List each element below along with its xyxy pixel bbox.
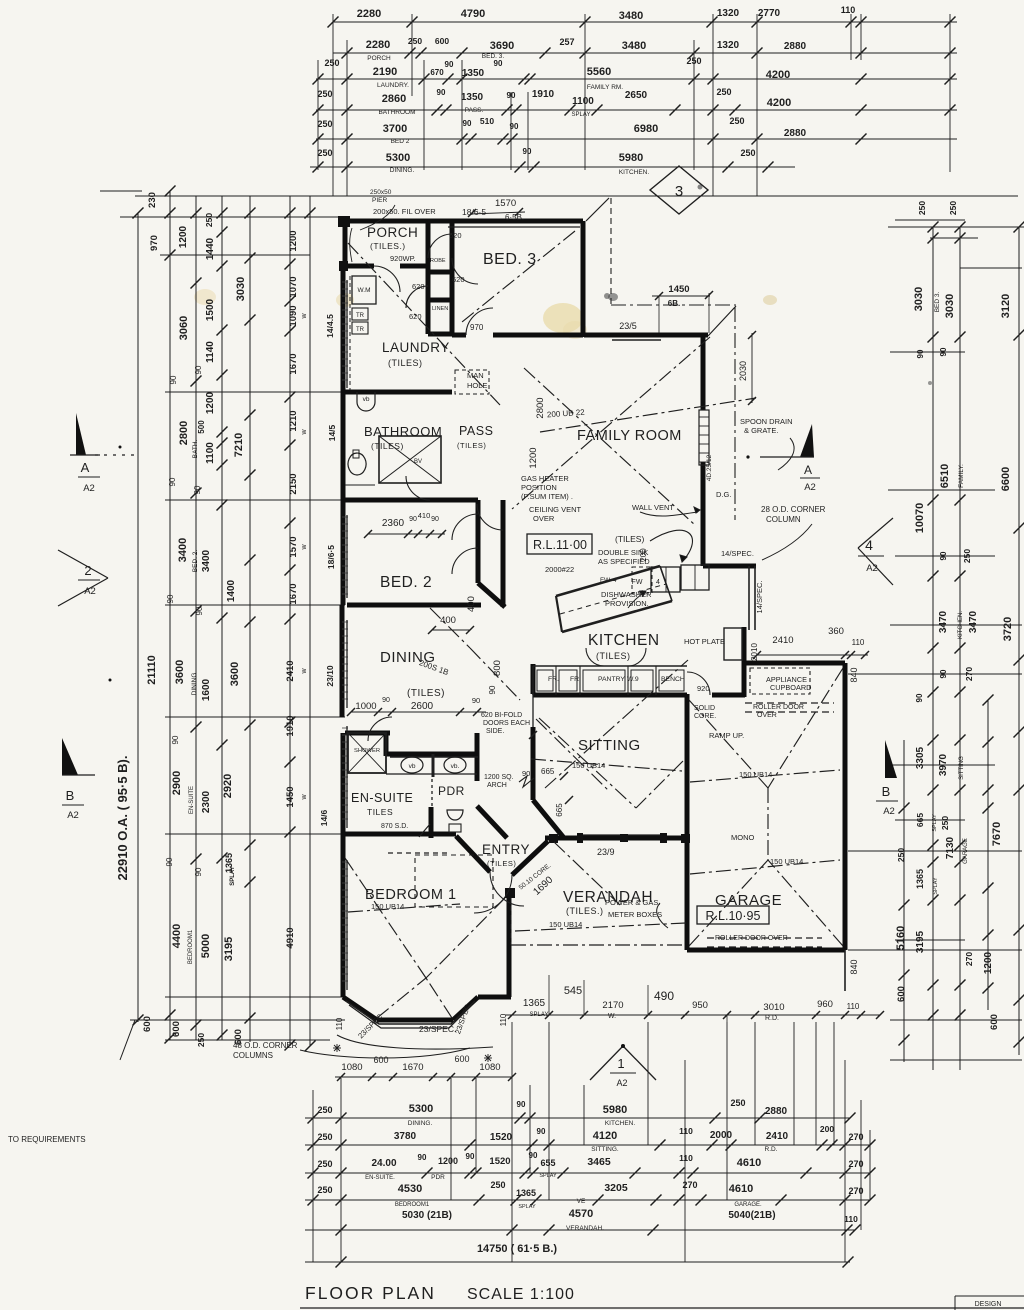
svg-text:250: 250 <box>408 36 422 46</box>
svg-text:6B.: 6B. <box>668 299 680 308</box>
svg-text:& GRATE.: & GRATE. <box>744 426 778 435</box>
svg-text:4120: 4120 <box>593 1130 617 1142</box>
svg-text:600: 600 <box>171 1021 182 1037</box>
svg-text:D.G.: D.G. <box>716 490 731 499</box>
svg-text:2300: 2300 <box>201 790 212 813</box>
svg-text:1670: 1670 <box>288 353 299 374</box>
svg-text:1200 SQ.: 1200 SQ. <box>484 774 514 781</box>
svg-text:PORCH: PORCH <box>367 225 418 240</box>
svg-text:2360: 2360 <box>382 518 405 529</box>
svg-text:R.D.: R.D. <box>765 1146 778 1153</box>
svg-text:1200: 1200 <box>178 225 189 248</box>
svg-text:4910: 4910 <box>285 927 296 948</box>
svg-text:600: 600 <box>373 1055 388 1065</box>
svg-text:90: 90 <box>195 606 204 615</box>
svg-text:410: 410 <box>418 511 431 520</box>
svg-text:SITTING: SITTING <box>959 756 965 780</box>
svg-text:VERANDAH.: VERANDAH. <box>566 1225 604 1232</box>
svg-text:1520: 1520 <box>489 1156 510 1167</box>
svg-text:4: 4 <box>865 537 873 553</box>
svg-text:110: 110 <box>679 1126 693 1136</box>
svg-text:KITCHEN.: KITCHEN. <box>605 1120 636 1127</box>
svg-text:SPLAY: SPLAY <box>572 112 591 118</box>
svg-text:LAUNDRY.: LAUNDRY. <box>377 82 409 89</box>
svg-text:A2: A2 <box>83 483 95 494</box>
svg-text:SITTING: SITTING <box>578 737 641 754</box>
svg-text:1200: 1200 <box>288 230 299 251</box>
svg-text:BEDROOM1: BEDROOM1 <box>395 1202 430 1208</box>
svg-text:2000: 2000 <box>710 1130 733 1141</box>
svg-text:SIDE.: SIDE. <box>486 728 504 735</box>
svg-text:vb: vb <box>409 763 416 770</box>
svg-text:2920: 2920 <box>222 774 234 798</box>
svg-text:2: 2 <box>84 563 91 578</box>
svg-text:90: 90 <box>437 88 446 97</box>
svg-text:1350: 1350 <box>462 68 485 79</box>
svg-text:TR: TR <box>356 313 365 319</box>
svg-text:4200: 4200 <box>767 97 791 109</box>
svg-text:(TILES): (TILES) <box>596 651 631 661</box>
svg-text:1200: 1200 <box>438 1156 458 1166</box>
svg-text:250: 250 <box>729 116 744 126</box>
svg-text:2280: 2280 <box>357 8 381 20</box>
svg-text:90: 90 <box>507 91 516 100</box>
svg-text:HOT PLATE: HOT PLATE <box>684 637 725 646</box>
svg-text:2030: 2030 <box>738 361 748 381</box>
svg-text:14/5: 14/5 <box>327 424 337 441</box>
svg-text:90: 90 <box>171 735 180 744</box>
svg-text:1070: 1070 <box>288 276 299 297</box>
svg-text:840: 840 <box>849 959 859 974</box>
svg-text:400: 400 <box>440 615 456 626</box>
svg-text:90: 90 <box>488 685 497 694</box>
svg-text:RAMP UP.: RAMP UP. <box>709 731 744 740</box>
svg-text:1350: 1350 <box>461 92 484 103</box>
svg-text:6·5B.: 6·5B. <box>505 213 524 222</box>
svg-text:1320: 1320 <box>717 8 740 19</box>
svg-text:1570: 1570 <box>495 198 516 209</box>
svg-text:250: 250 <box>730 1098 745 1108</box>
svg-text:A2: A2 <box>67 810 79 821</box>
svg-text:CUPBOARD: CUPBOARD <box>770 683 811 692</box>
svg-text:600: 600 <box>435 36 449 46</box>
svg-text:5980: 5980 <box>619 152 643 164</box>
svg-text:BED 3.: BED 3. <box>934 292 941 313</box>
svg-text:21110: 21110 <box>146 655 158 684</box>
svg-text:2600: 2600 <box>411 701 434 712</box>
svg-text:3465: 3465 <box>587 1156 611 1168</box>
svg-text:2900: 2900 <box>171 771 183 795</box>
svg-text:110: 110 <box>844 1214 858 1224</box>
svg-text:1670: 1670 <box>402 1062 423 1073</box>
svg-text:5300: 5300 <box>409 1103 433 1115</box>
svg-text:A2: A2 <box>616 1078 627 1088</box>
svg-text:BATHROOM: BATHROOM <box>378 109 415 116</box>
svg-text:28 O.D. CORNER: 28 O.D. CORNER <box>761 505 826 514</box>
svg-text:5560: 5560 <box>587 66 611 78</box>
svg-text:FAMILY.: FAMILY. <box>958 464 965 488</box>
svg-text:2000#22: 2000#22 <box>545 565 574 574</box>
svg-text:90: 90 <box>168 477 177 486</box>
svg-text:KITCHEN: KITCHEN <box>588 632 660 649</box>
svg-text:2800: 2800 <box>178 421 190 445</box>
svg-text:3600: 3600 <box>174 660 186 684</box>
svg-text:23/10: 23/10 <box>325 665 335 687</box>
svg-text:620: 620 <box>449 231 462 240</box>
svg-text:3470: 3470 <box>938 610 949 633</box>
svg-text:3400: 3400 <box>177 538 189 562</box>
svg-text:(TILES.): (TILES.) <box>566 906 604 916</box>
svg-text:EN-SUITE: EN-SUITE <box>189 786 195 814</box>
svg-text:5030 (21B): 5030 (21B) <box>402 1210 452 1221</box>
svg-text:FLOOR PLAN: FLOOR PLAN <box>305 1283 436 1303</box>
svg-text:A: A <box>81 460 90 475</box>
svg-text:600: 600 <box>896 986 907 1002</box>
svg-text:A: A <box>804 463 812 477</box>
svg-text:5980: 5980 <box>603 1104 627 1116</box>
svg-text:GAS HEATER: GAS HEATER <box>521 474 569 483</box>
svg-text:A2: A2 <box>866 563 878 574</box>
svg-text:5040(21B): 5040(21B) <box>728 1210 775 1221</box>
svg-text:1365: 1365 <box>915 869 925 889</box>
svg-text:1570: 1570 <box>288 536 299 557</box>
svg-text:ROBE: ROBE <box>430 258 446 264</box>
svg-text:MAN: MAN <box>467 371 484 380</box>
svg-text:FR.: FR. <box>548 676 559 683</box>
svg-text:90: 90 <box>916 349 925 358</box>
svg-text:250: 250 <box>324 58 339 68</box>
svg-text:2150: 2150 <box>288 473 299 494</box>
svg-text:CEILING VENT: CEILING VENT <box>529 505 582 514</box>
svg-text:1910: 1910 <box>532 89 555 100</box>
svg-text:2190: 2190 <box>373 66 397 78</box>
svg-text:PDR: PDR <box>431 1174 445 1181</box>
svg-text:TILES: TILES <box>367 807 393 817</box>
svg-text:B: B <box>66 788 75 803</box>
svg-text:vb.: vb. <box>451 763 460 770</box>
svg-text:EN-SUITE.: EN-SUITE. <box>365 1175 395 1181</box>
svg-text:90: 90 <box>537 1127 546 1136</box>
svg-text:6600: 6600 <box>1000 467 1012 491</box>
svg-text:DINING: DINING <box>191 673 198 696</box>
svg-text:EN-SUITE: EN-SUITE <box>351 791 413 805</box>
svg-text:23/5: 23/5 <box>619 321 637 331</box>
svg-text:3010: 3010 <box>763 1002 784 1013</box>
svg-text:90: 90 <box>194 365 203 374</box>
svg-text:FR.: FR. <box>570 676 581 683</box>
svg-text:1450: 1450 <box>668 284 689 295</box>
svg-text:90: 90 <box>193 485 202 494</box>
svg-text:w: w <box>301 668 308 675</box>
svg-text:1500: 1500 <box>205 298 216 321</box>
svg-text:R.D.: R.D. <box>765 1015 779 1022</box>
svg-text:SPLAY: SPLAY <box>518 1204 536 1210</box>
svg-text:BED. 3.: BED. 3. <box>482 53 505 60</box>
svg-text:PANTRY: PANTRY <box>598 676 625 683</box>
svg-text:970: 970 <box>149 235 160 251</box>
svg-text:W.M: W.M <box>358 287 371 294</box>
svg-text:90: 90 <box>463 119 472 128</box>
svg-text:SPLAY: SPLAY <box>932 814 938 832</box>
svg-text:1200: 1200 <box>528 447 539 468</box>
svg-text:BEDROOM 1: BEDROOM 1 <box>365 887 457 903</box>
svg-text:POWER & GAS.: POWER & GAS. <box>605 898 660 907</box>
svg-text:1600: 1600 <box>201 678 212 701</box>
svg-text:150 UB14: 150 UB14 <box>371 902 404 911</box>
svg-text:FW: FW <box>600 577 611 584</box>
svg-text:WALL VENT: WALL VENT <box>632 503 674 512</box>
svg-text:CORE.: CORE. <box>694 713 716 720</box>
svg-text:4200: 4200 <box>766 69 790 81</box>
svg-text:250: 250 <box>940 816 950 830</box>
svg-text:1320: 1320 <box>717 40 740 51</box>
svg-text:FAMILY RM.: FAMILY RM. <box>587 84 623 91</box>
svg-text:W.9: W.9 <box>627 676 639 683</box>
svg-text:18/6·5: 18/6·5 <box>462 207 486 217</box>
svg-text:400: 400 <box>466 596 477 612</box>
svg-text:620: 620 <box>409 312 422 321</box>
svg-text:3030: 3030 <box>944 294 956 318</box>
svg-text:2170: 2170 <box>602 1000 623 1011</box>
svg-text:A2: A2 <box>883 806 895 817</box>
svg-text:4790: 4790 <box>461 8 485 20</box>
svg-text:950: 950 <box>692 1000 708 1011</box>
svg-text:4570: 4570 <box>569 1208 593 1220</box>
svg-text:SPOON DRAIN: SPOON DRAIN <box>740 417 793 426</box>
svg-text:1440: 1440 <box>205 237 216 260</box>
svg-text:PDR: PDR <box>438 784 465 798</box>
svg-text:BED 2: BED 2 <box>391 138 410 145</box>
svg-text:COLUMNS: COLUMNS <box>233 1051 273 1060</box>
svg-text:90: 90 <box>915 693 924 702</box>
svg-text:1365: 1365 <box>523 998 546 1009</box>
svg-text:2800: 2800 <box>535 397 546 418</box>
svg-text:2770: 2770 <box>758 8 781 19</box>
svg-text:110: 110 <box>852 638 865 647</box>
svg-text:2650: 2650 <box>625 90 648 101</box>
svg-text:665: 665 <box>541 767 555 776</box>
svg-text:(TILES.): (TILES.) <box>370 241 406 251</box>
svg-text:250: 250 <box>896 848 906 862</box>
svg-text:90: 90 <box>510 122 519 131</box>
svg-text:90: 90 <box>194 867 203 876</box>
svg-text:10070: 10070 <box>914 503 926 534</box>
svg-text:2280: 2280 <box>366 39 390 51</box>
svg-text:270: 270 <box>964 952 974 966</box>
svg-text:14/4.5: 14/4.5 <box>325 314 335 338</box>
svg-text:3480: 3480 <box>622 40 646 52</box>
svg-text:B: B <box>882 784 891 799</box>
svg-text:ENTRY: ENTRY <box>482 842 530 857</box>
svg-text:METER BOXES: METER BOXES <box>608 910 662 919</box>
svg-text:3780: 3780 <box>394 1131 417 1142</box>
svg-text:1520: 1520 <box>490 1132 513 1143</box>
svg-text:90: 90 <box>418 1153 427 1162</box>
svg-text:500: 500 <box>197 420 206 434</box>
svg-text:90: 90 <box>431 516 439 523</box>
svg-text:3030: 3030 <box>235 277 247 301</box>
svg-text:620: 620 <box>412 282 425 291</box>
svg-text:1080: 1080 <box>479 1062 500 1073</box>
svg-text:14/6: 14/6 <box>319 809 329 826</box>
svg-text:5160: 5160 <box>895 926 907 950</box>
svg-text:48 O.D. CORNER: 48 O.D. CORNER <box>233 1041 298 1050</box>
svg-text:POSITION: POSITION <box>521 483 557 492</box>
svg-text:2880: 2880 <box>784 41 807 52</box>
svg-text:KITCHEN.: KITCHEN. <box>619 169 650 176</box>
svg-text:1090: 1090 <box>288 305 299 326</box>
svg-text:4610: 4610 <box>729 1183 753 1195</box>
svg-text:150 UB14: 150 UB14 <box>739 770 772 779</box>
svg-text:DINING.: DINING. <box>408 1120 433 1127</box>
svg-text:250: 250 <box>317 1132 332 1142</box>
svg-text:3120: 3120 <box>1000 294 1012 318</box>
svg-text:250: 250 <box>317 148 332 158</box>
svg-text:LINEN: LINEN <box>432 306 448 312</box>
svg-text:250: 250 <box>317 119 332 129</box>
svg-text:250: 250 <box>317 1105 332 1115</box>
svg-text:LAUNDRY: LAUNDRY <box>382 340 450 355</box>
svg-text:BED. 2: BED. 2 <box>380 574 432 591</box>
svg-text:4530: 4530 <box>398 1183 422 1195</box>
svg-text:SPLAY: SPLAY <box>933 877 939 895</box>
svg-text:(TILES): (TILES) <box>388 358 423 368</box>
svg-text:840: 840 <box>849 667 859 682</box>
svg-text:90: 90 <box>523 147 532 156</box>
svg-text:250: 250 <box>948 201 958 215</box>
svg-text:w: w <box>301 429 308 436</box>
svg-text:7670: 7670 <box>991 822 1003 846</box>
svg-text:BATHROOM: BATHROOM <box>364 424 442 439</box>
svg-text:90: 90 <box>165 857 174 866</box>
svg-text:7130: 7130 <box>945 836 956 859</box>
svg-text:BEDROOM1: BEDROOM1 <box>188 929 194 964</box>
svg-text:14/SPEC.: 14/SPEC. <box>721 549 754 558</box>
svg-text:18/6·5: 18/6·5 <box>326 545 336 569</box>
svg-text:90: 90 <box>169 375 178 384</box>
svg-text:90: 90 <box>472 696 480 705</box>
svg-text:1080: 1080 <box>341 1062 362 1073</box>
svg-text:BED. 3: BED. 3 <box>483 251 537 268</box>
svg-text:110: 110 <box>335 1017 344 1030</box>
svg-text:150 UB14: 150 UB14 <box>549 920 582 929</box>
svg-text:150 UB14: 150 UB14 <box>770 857 803 866</box>
svg-text:(TILES): (TILES) <box>371 441 404 451</box>
svg-text:90: 90 <box>494 59 503 68</box>
svg-text:A2: A2 <box>84 586 96 597</box>
svg-text:TR: TR <box>356 327 365 333</box>
svg-text:w: w <box>301 544 308 551</box>
svg-text:1: 1 <box>617 1056 624 1071</box>
svg-text:R.L.10·95: R.L.10·95 <box>706 909 761 923</box>
svg-text:250: 250 <box>490 1180 505 1190</box>
svg-text:4D.25/12: 4D.25/12 <box>706 454 713 481</box>
svg-text:250: 250 <box>317 1185 332 1195</box>
svg-text:PASS: PASS <box>459 424 493 438</box>
svg-text:24.00: 24.00 <box>371 1158 396 1169</box>
svg-text:3480: 3480 <box>619 10 643 22</box>
svg-text:150 UB14: 150 UB14 <box>572 761 605 770</box>
svg-text:HOLE: HOLE <box>467 381 487 390</box>
svg-text:1400: 1400 <box>226 579 237 602</box>
svg-text:1000: 1000 <box>355 701 376 712</box>
svg-text:670: 670 <box>430 68 444 77</box>
svg-text:250: 250 <box>204 213 214 227</box>
svg-text:ARCH: ARCH <box>487 782 507 789</box>
svg-text:COLUMN: COLUMN <box>766 515 801 524</box>
svg-text:SPLAY: SPLAY <box>539 1173 557 1179</box>
svg-text:R.L.11·00: R.L.11·00 <box>533 538 587 552</box>
svg-text:5300: 5300 <box>386 152 410 164</box>
svg-text:2860: 2860 <box>382 93 406 105</box>
svg-text:(P.SUM ITEM) .: (P.SUM ITEM) . <box>521 492 573 501</box>
svg-text:920WP.: 920WP. <box>390 254 416 263</box>
svg-text:SCALE 1:100: SCALE 1:100 <box>467 1286 575 1303</box>
svg-text:90: 90 <box>166 594 175 603</box>
svg-text:4: 4 <box>656 579 660 586</box>
svg-text:VE: VE <box>577 1198 586 1205</box>
svg-text:w: w <box>301 313 308 320</box>
svg-text:250: 250 <box>317 89 332 99</box>
svg-text:600: 600 <box>989 1014 1000 1030</box>
svg-text:2880: 2880 <box>784 128 807 139</box>
svg-text:3205: 3205 <box>604 1182 628 1194</box>
svg-text:490: 490 <box>654 989 674 1003</box>
svg-text:BV: BV <box>414 459 422 465</box>
svg-text:BENCH: BENCH <box>661 676 685 683</box>
svg-text:1140: 1140 <box>205 341 216 363</box>
svg-text:3030: 3030 <box>913 287 925 311</box>
svg-text:OVER: OVER <box>533 514 555 523</box>
svg-text:3060: 3060 <box>178 316 190 340</box>
svg-text:5000: 5000 <box>200 934 212 958</box>
svg-text:3195: 3195 <box>223 937 235 961</box>
svg-text:BED. 2.: BED. 2. <box>192 550 199 573</box>
svg-text:3: 3 <box>675 183 683 200</box>
svg-text:DISHWASHER: DISHWASHER <box>601 590 652 599</box>
svg-text:(TILES): (TILES) <box>615 534 644 544</box>
svg-text:620 BI-FOLD: 620 BI-FOLD <box>481 712 522 719</box>
svg-text:4610: 4610 <box>737 1157 761 1169</box>
svg-text:7210: 7210 <box>233 433 245 457</box>
svg-text:DESIGN: DESIGN <box>975 1301 1002 1308</box>
svg-text:110: 110 <box>679 1153 693 1163</box>
svg-text:DOORS EACH: DOORS EACH <box>483 720 530 727</box>
svg-text:BATH.: BATH. <box>192 439 199 458</box>
svg-text:PROVISION.: PROVISION. <box>605 599 649 608</box>
svg-text:6980: 6980 <box>634 123 658 135</box>
svg-text:OVER: OVER <box>757 712 777 719</box>
svg-text:2410: 2410 <box>772 635 793 646</box>
svg-text:DINING.: DINING. <box>390 167 415 174</box>
svg-text:200: 200 <box>820 1124 834 1134</box>
svg-text:250x50: 250x50 <box>370 189 392 196</box>
svg-text:SOLID: SOLID <box>694 705 715 712</box>
svg-text:960: 960 <box>817 999 833 1010</box>
svg-text:250: 250 <box>317 1159 332 1169</box>
svg-text:250: 250 <box>740 148 755 158</box>
svg-text:6510: 6510 <box>939 464 951 488</box>
svg-text:1910: 1910 <box>285 715 296 736</box>
svg-text:1100: 1100 <box>572 96 594 107</box>
svg-text:90: 90 <box>517 1100 526 1109</box>
svg-text:FAMILY ROOM: FAMILY ROOM <box>577 428 682 444</box>
svg-text:545: 545 <box>564 985 582 997</box>
svg-text:14/SPEC.: 14/SPEC. <box>755 581 764 614</box>
svg-text:250: 250 <box>917 201 927 215</box>
svg-text:2880: 2880 <box>765 1106 788 1117</box>
svg-text:23/9: 23/9 <box>597 847 615 857</box>
